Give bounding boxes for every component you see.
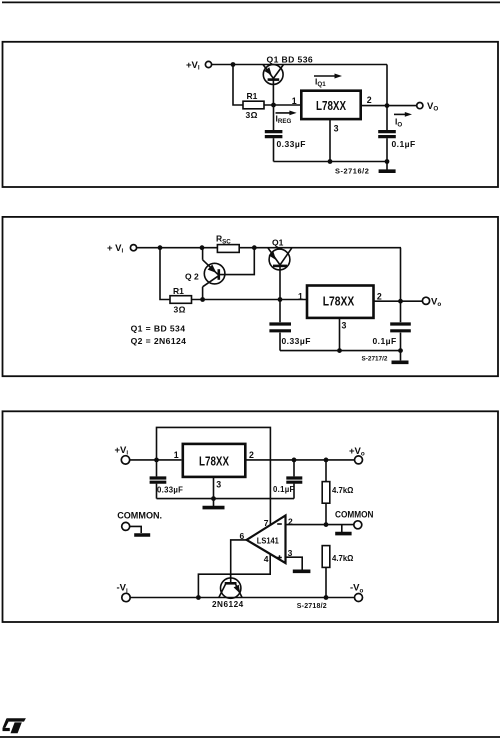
resistor R2 4.7k lower: [322, 546, 353, 598]
svg-text:2: 2: [249, 450, 254, 460]
svg-text:+VI: +VI: [186, 60, 200, 72]
transistor Q3 2N6124: [212, 574, 244, 609]
svg-text:1: 1: [298, 292, 303, 302]
svg-text:Q2 = 2N6124: Q2 = 2N6124: [131, 336, 187, 346]
svg-text:-Vi: -Vi: [117, 583, 129, 595]
wire pin 3 down: [339, 318, 341, 351]
resistor RSC: [216, 234, 239, 253]
svg-text:0.33µF: 0.33µF: [277, 139, 306, 149]
capacitor C1 0.33uF: [150, 460, 184, 499]
wire Q2 base to C: [219, 248, 255, 275]
svg-text:R1: R1: [173, 286, 184, 296]
svg-text:-Vo: -Vo: [350, 583, 364, 595]
node junction B: [200, 245, 205, 250]
svg-text:0.1µF: 0.1µF: [392, 139, 416, 149]
wire pin2 to output: [361, 105, 417, 107]
wire pin 3 down: [213, 477, 215, 499]
svg-text:3: 3: [216, 479, 221, 489]
node VO output terminal: [417, 101, 439, 113]
wire pin2 output: [246, 459, 355, 461]
wire ground rail: [157, 498, 295, 500]
ST logo: [3, 718, 26, 733]
svg-text:RSC: RSC: [216, 234, 231, 246]
svg-text:7: 7: [264, 518, 269, 528]
regulator U1 L78XX: [307, 286, 374, 318]
svg-text:L78XX: L78XX: [323, 293, 355, 308]
node junction divider: [324, 458, 329, 463]
figure frame box 3: [3, 411, 499, 622]
svg-text:Q 2: Q 2: [185, 271, 199, 281]
current arrow IO: [394, 112, 412, 128]
capacitor C2 0.1uF: [378, 132, 415, 162]
figure frame box 2: [3, 217, 499, 376]
svg-text:S-2716/2: S-2716/2: [335, 166, 369, 175]
wire right vertical: [400, 248, 402, 323]
wire bottom rail: [130, 597, 354, 599]
page bottom rule: [0, 736, 500, 738]
svg-text:COMMON: COMMON: [335, 509, 374, 519]
node +Vo output terminal: [349, 446, 365, 464]
svg-text:0.1µF: 0.1µF: [273, 485, 295, 494]
svg-text:3: 3: [334, 123, 339, 133]
node input junction: [154, 458, 159, 463]
svg-text:+Vi: +Vi: [115, 445, 129, 457]
node COMMON right terminal: [335, 509, 374, 529]
capacitor C1 0.33uF: [265, 105, 306, 162]
svg-text:IREG: IREG: [276, 113, 292, 125]
wire bottom rail: [274, 161, 388, 163]
svg-text:0.33µF: 0.33µF: [282, 336, 311, 346]
wire input to pin 1: [130, 459, 182, 461]
node VO output terminal: [422, 296, 441, 308]
current arrow IQ1: [314, 74, 342, 89]
wire R1 to pin 1: [192, 299, 308, 301]
svg-text:IQ1: IQ1: [315, 76, 326, 88]
wire op-amp pin2 to divider: [286, 524, 327, 526]
node output junction: [385, 103, 390, 108]
wire op-amp pin 3 to ground: [286, 557, 303, 569]
svg-text:Vo: Vo: [431, 296, 441, 308]
svg-text:IO: IO: [395, 117, 402, 129]
transistor Q1 (BD534, PNP): [268, 238, 292, 300]
svg-text:2N6124: 2N6124: [212, 600, 244, 609]
svg-text:LS141: LS141: [257, 535, 279, 545]
node junction pin4 rail: [196, 595, 201, 600]
svg-text:L78XX: L78XX: [199, 453, 229, 468]
regulator U1 L78XX: [183, 444, 246, 477]
svg-text:3Ω: 3Ω: [174, 305, 186, 315]
node -Vi terminal: [117, 583, 131, 602]
transistor Q1 (BD536, PNP): [263, 54, 313, 105]
node junction R2 bottom: [324, 595, 329, 600]
figure frame box 1: [3, 42, 499, 187]
svg-text:2: 2: [288, 516, 293, 526]
wire pin2 to output: [374, 300, 423, 302]
capacitor C2 0.1uF: [273, 460, 302, 499]
svg-text:2: 2: [377, 292, 382, 302]
ground COMMON right: [335, 525, 351, 534]
resistor R1 4.7k upper: [322, 460, 353, 525]
node junction C: [252, 245, 257, 250]
wire divider to COMMON terminal: [326, 524, 354, 526]
wire R1 to pin 1: [264, 104, 301, 106]
node junction A: [158, 245, 163, 250]
page top rule: [2, 1, 500, 3]
wire top loop to op-amp pin 7: [157, 427, 271, 525]
svg-text:2: 2: [367, 95, 372, 105]
node +VI input terminal: [186, 60, 212, 72]
regulator U1 L78XX: [301, 91, 360, 119]
node pin3 junction: [211, 496, 216, 501]
node rail/ground junction: [385, 159, 390, 164]
svg-text:S-2718/2: S-2718/2: [297, 603, 327, 610]
svg-text:3Ω: 3Ω: [246, 110, 258, 120]
node junction Q1 base: [278, 297, 283, 302]
label COMMON left: [117, 510, 162, 535]
svg-text:4.7kΩ: 4.7kΩ: [332, 554, 353, 563]
node +Vi input terminal: [115, 445, 130, 464]
node junction 0.1uF: [292, 458, 297, 463]
svg-text:L78XX: L78XX: [316, 98, 346, 113]
resistor R1: [170, 286, 192, 314]
svg-text:4.7kΩ: 4.7kΩ: [332, 486, 353, 495]
wire input top rail: [212, 64, 387, 66]
svg-text:S-2717/2: S-2717/2: [362, 356, 388, 363]
svg-text:1: 1: [292, 96, 297, 106]
svg-text:Q1 = BD 534: Q1 = BD 534: [131, 324, 186, 334]
wire down to R1: [233, 65, 243, 106]
ground: [379, 162, 396, 172]
svg-text:VO: VO: [427, 101, 438, 113]
ground: [392, 351, 409, 363]
resistor R1: [243, 91, 264, 120]
transistor Q2 (2N6124, PNP): [185, 248, 225, 300]
svg-text:4: 4: [264, 554, 269, 564]
node -Vo terminal: [350, 583, 364, 602]
wire op-amp pin 4 left and down to rail: [198, 554, 270, 598]
capacitor C2 0.1uF: [373, 324, 411, 351]
wire bottom rail: [280, 350, 401, 352]
node rail/ground junction: [398, 348, 403, 353]
capacitor C1 0.33uF: [269, 300, 310, 351]
node pin3 junction: [328, 159, 333, 164]
op-amp U2 LS141: [240, 516, 294, 564]
node pin3 junction: [337, 348, 342, 353]
current arrow IREG: [276, 111, 297, 126]
svg-text:R1: R1: [247, 91, 258, 101]
wire op-amp pin 6 to Q3 base: [231, 540, 247, 584]
svg-text:0.1µF: 0.1µF: [373, 336, 397, 346]
wire right vertical: [386, 65, 388, 131]
wire pin 3 down: [329, 120, 331, 162]
svg-text:0.33µF: 0.33µF: [157, 486, 183, 495]
node junction base/R1/cap: [271, 103, 276, 108]
svg-text:1: 1: [174, 450, 179, 460]
node junction input/R1: [231, 62, 236, 67]
ground pin3: [203, 499, 225, 508]
node output junction: [398, 299, 403, 304]
wire A down to R1: [160, 248, 170, 300]
svg-text:COMMON.: COMMON.: [117, 510, 162, 520]
svg-text:+ Vi: + Vi: [107, 243, 124, 255]
node +VI input terminal: [107, 243, 137, 255]
svg-text:Q1 BD 536: Q1 BD 536: [267, 54, 314, 64]
node divider midpoint: [324, 522, 329, 527]
svg-text:3: 3: [342, 320, 347, 330]
ground pin3 op-amp: [293, 569, 311, 573]
node junction Q2 collector: [200, 297, 205, 302]
svg-text:Q1: Q1: [272, 238, 284, 248]
svg-text:+Vo: +Vo: [349, 446, 365, 458]
wire input top rail: [137, 247, 401, 249]
